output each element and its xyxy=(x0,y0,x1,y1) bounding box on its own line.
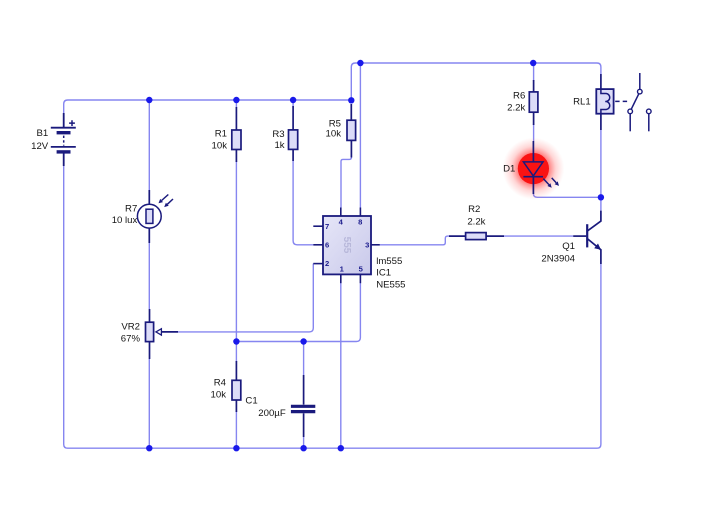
wire relay bottom to Q1 collector xyxy=(600,130,602,211)
wire upper rail y=63 from node above R5 to relay xyxy=(351,63,601,101)
svg-text:2: 2 xyxy=(325,259,329,268)
label R6 2.2k xyxy=(507,90,525,113)
label R1 10k xyxy=(212,128,228,151)
label D1 xyxy=(503,163,515,174)
svg-text:IC1: IC1 xyxy=(376,267,391,278)
label R5 10k xyxy=(326,119,342,140)
svg-text:2.2k: 2.2k xyxy=(467,217,485,228)
svg-text:B1: B1 xyxy=(36,128,48,139)
label Q1 2N3904 xyxy=(541,241,575,265)
svg-text:R4: R4 xyxy=(214,378,227,389)
wire R5 to pin4 xyxy=(341,157,351,207)
relay switch contacts xyxy=(628,73,651,131)
svg-text:7: 7 xyxy=(325,222,329,231)
battery B1 xyxy=(51,113,76,166)
IC1 pin 4 xyxy=(339,208,344,227)
wire pin1 to ground rail xyxy=(340,283,342,448)
wire top rail y=100 from battery to R5 node xyxy=(64,100,352,113)
svg-text:NE555: NE555 xyxy=(376,279,405,290)
IC1 pin 3 xyxy=(365,241,380,250)
svg-text:R7: R7 xyxy=(125,203,137,214)
svg-text:2N3904: 2N3904 xyxy=(541,254,575,265)
label R4 10k xyxy=(211,378,227,401)
junction R6 upper rail xyxy=(530,60,536,66)
label C1 xyxy=(245,396,257,407)
svg-text:R6: R6 xyxy=(513,90,525,101)
svg-text:R1: R1 xyxy=(215,128,227,139)
IC1 pin 2 xyxy=(313,259,329,268)
label R2 2.2k xyxy=(467,204,485,228)
junction VR2 ground rail xyxy=(146,445,152,451)
wire D1 to collector node xyxy=(533,194,601,198)
junction R1 top rail xyxy=(233,97,239,103)
svg-text:D1: D1 xyxy=(503,163,515,174)
svg-text:C1: C1 xyxy=(245,396,257,407)
wire C1 top xyxy=(303,342,305,376)
wire pin8 branch xyxy=(359,63,361,208)
resistor R4 xyxy=(232,361,241,412)
potentiometer VR2 xyxy=(146,309,179,359)
junction R7 top rail xyxy=(146,97,152,103)
label VR2 67% xyxy=(121,321,141,344)
label RL1 xyxy=(573,97,591,108)
label R7 10 lux xyxy=(112,203,138,226)
svg-text:67%: 67% xyxy=(121,333,141,344)
resistor R5 xyxy=(347,104,356,158)
resistor R2 xyxy=(449,233,504,240)
capacitor C1 xyxy=(291,375,315,437)
svg-text:8: 8 xyxy=(358,217,362,226)
junction pin1 ground rail xyxy=(338,445,344,451)
wire R1 branch top xyxy=(235,100,237,108)
junction C1 node xyxy=(300,338,306,344)
svg-text:VR2: VR2 xyxy=(121,321,140,332)
junction R4 node xyxy=(233,338,239,344)
IC1 pin 1 xyxy=(340,264,345,283)
svg-text:200µF: 200µF xyxy=(258,408,286,419)
resistor R3 xyxy=(289,106,298,161)
IC1 pin 8 xyxy=(358,208,362,227)
svg-text:RL1: RL1 xyxy=(573,97,591,108)
junction Q1 collector node xyxy=(598,194,604,200)
svg-text:555: 555 xyxy=(341,237,352,254)
wire pin3 to R2 xyxy=(380,236,449,245)
svg-text:R2: R2 xyxy=(468,204,480,215)
IC1 pin 6 xyxy=(313,241,329,250)
wire R3 to pin6 xyxy=(293,160,313,245)
junction R5 top rail xyxy=(348,97,354,103)
svg-text:10k: 10k xyxy=(211,390,227,401)
svg-text:lm555: lm555 xyxy=(376,256,402,267)
wire R7 to VR2 xyxy=(148,243,150,309)
wire R6 top xyxy=(533,63,535,81)
label R3 1k xyxy=(272,129,284,151)
wire R1 to R4 xyxy=(235,161,237,362)
relay RL1 coil xyxy=(596,74,630,130)
LED D1 xyxy=(502,138,564,200)
svg-text:R3: R3 xyxy=(272,129,284,140)
IC1 pin 5 xyxy=(359,264,364,283)
svg-text:10 lux: 10 lux xyxy=(112,215,138,226)
label 200uF xyxy=(258,408,286,419)
svg-text:1k: 1k xyxy=(274,140,284,151)
wire R6 to D1 xyxy=(533,124,535,141)
label lm555 IC1 NE555 xyxy=(376,256,405,290)
wire R4 bottom xyxy=(235,411,237,448)
wire R2 to Q1 base xyxy=(504,235,573,237)
svg-text:6: 6 xyxy=(325,241,329,250)
junction R3 top rail xyxy=(290,97,296,103)
wire pin5 to C1 node xyxy=(236,283,360,342)
svg-text:Q1: Q1 xyxy=(562,241,575,252)
junction R4 ground rail xyxy=(233,445,239,451)
svg-text:10k: 10k xyxy=(212,140,228,151)
transistor Q1 2N3904 xyxy=(573,211,601,264)
svg-text:12V: 12V xyxy=(31,141,49,152)
wire pin2 to VR2 wiper xyxy=(178,264,313,332)
svg-text:2.2k: 2.2k xyxy=(507,103,525,114)
resistor R6 xyxy=(529,80,538,125)
photoresistor R7 xyxy=(137,190,173,243)
wire R3 branch top xyxy=(292,100,294,108)
op-amp/timer IC1 555 body xyxy=(323,216,371,274)
wire C1 bottom xyxy=(303,437,305,448)
wire VR2 bottom xyxy=(148,359,150,448)
junction pin8 upper rail xyxy=(357,60,363,66)
svg-text:3: 3 xyxy=(365,241,369,250)
wire R7 branch top xyxy=(148,100,150,190)
IC1 pin 7 xyxy=(313,222,329,231)
svg-text:10k: 10k xyxy=(326,129,342,140)
junction C1 ground rail xyxy=(300,445,306,451)
resistor R1 xyxy=(232,107,241,162)
label B1 12V xyxy=(31,128,49,152)
wire ground rail from battery bottom to Q1 emitter xyxy=(64,166,601,448)
